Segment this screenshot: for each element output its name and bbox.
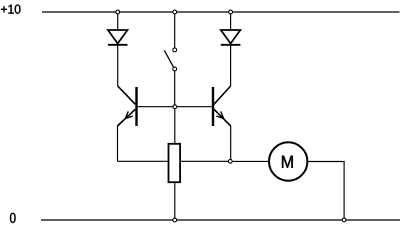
transistor Q2 [213,86,231,126]
wire Q1 emitter down [117,126,119,161]
wire D1 anode from +10 rail [117,12,119,30]
switch S1 [164,48,176,71]
wire base node to resistor [174,109,176,144]
node D2 tap on +10 rail [229,10,233,14]
wire base bus Q1 to Q2 [138,106,212,108]
node base junction [173,105,177,109]
diode D1 [108,30,128,45]
node motor return on 0 rail [342,218,346,222]
wire switch S1 to base node [174,71,176,105]
wire D2 anode from +10 rail [230,12,232,30]
wire motor to 0 rail [307,162,344,219]
transistor Q1 [117,86,136,126]
motor M1 [269,142,307,180]
net label 0 [10,213,16,223]
wire 0 rail [41,219,400,221]
node D1 tap on +10 rail [116,10,120,14]
wire Q2 emitter down to node [230,126,232,159]
wire +10 rail [42,11,400,13]
resistor R1 [169,144,181,182]
node S1 tap on +10 rail [173,10,177,14]
diode D2 [221,30,241,45]
net label +10 [1,5,20,14]
wire node to motor [232,160,269,162]
node resistor on 0 rail [173,218,177,222]
wire resistor to 0 rail [174,182,176,218]
wire switch S1 from +10 rail [174,12,176,48]
wire emitter bus [118,160,229,162]
node emitter junction [228,159,232,163]
wire D2 cathode to Q2 collector [230,45,232,87]
wire D1 cathode to Q1 collector [117,45,119,87]
